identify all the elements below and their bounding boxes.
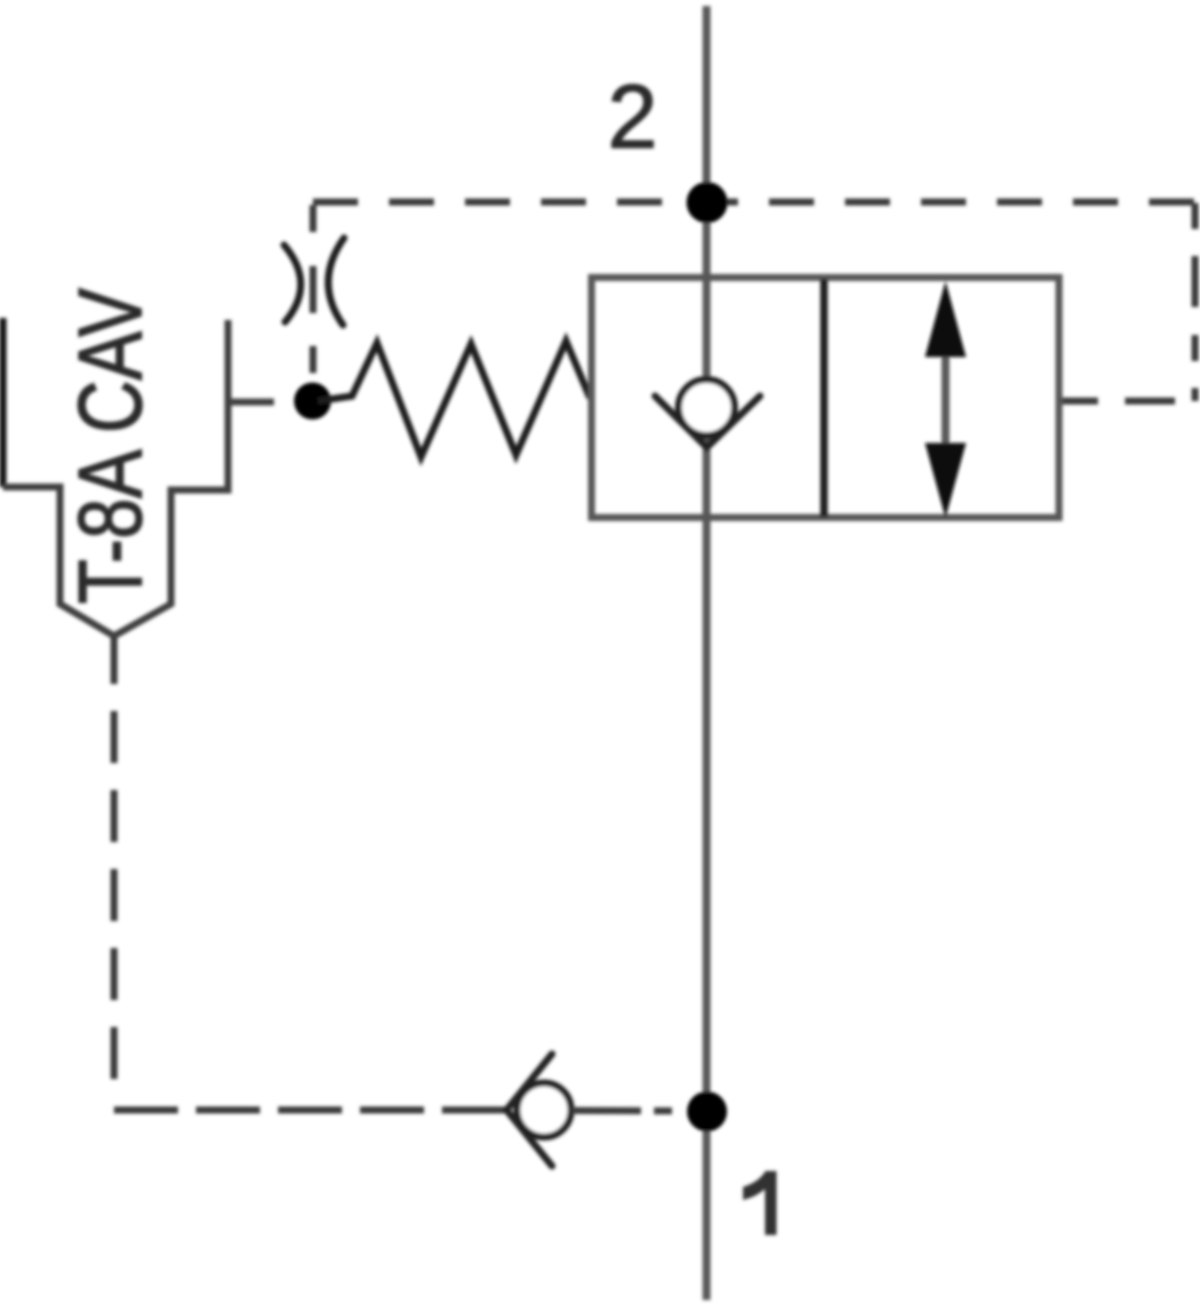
pilot line (dashed) vertical through orifice down to spring node (310, 205, 317, 392)
node: spring / pilot junction dot (294, 383, 331, 420)
pilot stub from valve right side to right dashed riser (1058, 398, 1197, 405)
valve envelope: divider between positions (820, 279, 828, 517)
cavity port tick (right side) (228, 399, 274, 406)
svg-text:T-8A CAV: T-8A CAV (61, 288, 161, 604)
valve envelope: outer rectangle (2-position body) (592, 278, 1060, 518)
cavity outline T-8A (stepped profile) (3, 320, 228, 636)
drain line (dashed) vertical down left side (111, 711, 118, 1100)
orifice (venturi) symbol in pilot line (284, 238, 344, 325)
svg-text:2: 2 (607, 68, 657, 168)
arrowhead up (925, 281, 966, 357)
check valve CV2 seat (V pointing left) (507, 1054, 553, 1166)
check valve poppet (circle, closed position) white over main line (679, 380, 735, 436)
spring (zigzag) (318, 341, 590, 457)
drain line (dashed) bottom horizontal to check valve CV2 (114, 1107, 505, 1114)
node 2 junction dot (687, 182, 728, 223)
node 1 junction dot (687, 1092, 727, 1132)
check valve seat (V) in left position (655, 396, 760, 448)
bidirectional flow arrow shaft (right position) (942, 350, 950, 448)
wire: main vertical line port 2 to port 1 (703, 6, 711, 1300)
wire: check valve CV2 to node 1 (dashes) (571, 1107, 690, 1115)
pilot line (dashed) top horizontal from orifice corner to right edge (313, 199, 1195, 206)
drain line (dashed) from cavity vertex: solid stub (111, 636, 118, 684)
check valve CV2 poppet circle (517, 1083, 571, 1137)
arrowhead down (925, 443, 966, 518)
port label 1 (743, 1171, 777, 1235)
cavity outline T-8A (left wall, dark) (0, 318, 7, 487)
pilot line (dashed) right vertical down right edge (1192, 203, 1199, 401)
